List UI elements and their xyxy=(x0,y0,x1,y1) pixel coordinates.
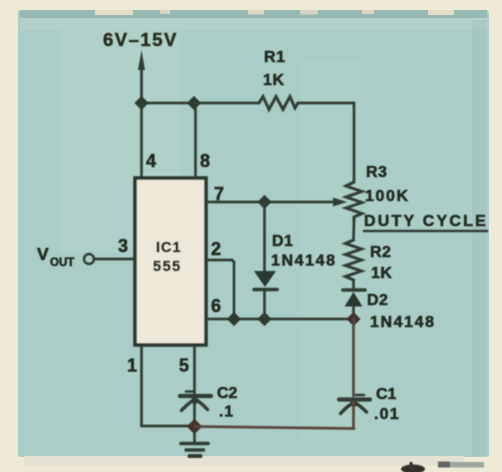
svg-text:R3: R3 xyxy=(366,164,387,181)
node Vout terminal xyxy=(37,244,94,269)
svg-text:3: 3 xyxy=(118,236,128,256)
junction A (supply/pin4) xyxy=(134,96,148,110)
svg-text:C2: C2 xyxy=(217,385,238,402)
svg-text:R1: R1 xyxy=(264,49,286,66)
wire C1 drop xyxy=(352,319,355,396)
wire D2 to junction xyxy=(352,306,355,319)
svg-text:D2: D2 xyxy=(367,292,388,309)
wire pin7 to wiper xyxy=(207,201,336,204)
svg-text:.01: .01 xyxy=(374,406,400,423)
wire pin2 jog xyxy=(207,260,234,319)
scan artifact marks bottom right xyxy=(401,462,484,472)
wire bottom left rail xyxy=(142,425,195,428)
wiper arrow of R3 xyxy=(333,198,347,207)
junction pin2/pin6 xyxy=(227,312,241,326)
resistor R1 xyxy=(259,49,298,110)
wire R1 to corner xyxy=(298,103,354,182)
capacitor C1 xyxy=(339,386,400,429)
svg-text:D1: D1 xyxy=(272,233,293,250)
svg-text:4: 4 xyxy=(146,151,156,171)
svg-text:2: 2 xyxy=(211,239,221,259)
wire bottom rail xyxy=(195,427,355,429)
wire top rail xyxy=(142,102,260,105)
diode D1 xyxy=(254,202,337,319)
svg-text:C1: C1 xyxy=(376,386,397,403)
svg-text:6: 6 xyxy=(211,296,221,316)
svg-text:6V–15V: 6V–15V xyxy=(103,29,178,50)
svg-text:555: 555 xyxy=(153,259,182,275)
svg-text:8: 8 xyxy=(200,151,210,171)
svg-text:1K: 1K xyxy=(263,72,285,89)
op IC1 555 body xyxy=(135,178,206,345)
junction B (pin8) xyxy=(187,96,201,110)
resistor R2 xyxy=(346,240,393,282)
wire R2 to D2 xyxy=(352,280,355,288)
svg-text:V: V xyxy=(37,244,49,264)
wire pin3 xyxy=(94,258,134,261)
svg-text:OUT: OUT xyxy=(50,257,74,269)
junction D2/C1 xyxy=(346,312,360,326)
svg-text:1K: 1K xyxy=(371,265,392,282)
wire pin6 rail xyxy=(207,318,354,321)
capacitor C2 xyxy=(180,385,238,421)
diode D2 xyxy=(343,290,436,331)
power supply 6V-15V xyxy=(103,29,178,103)
junction ground xyxy=(187,419,203,435)
svg-text:IC1: IC1 xyxy=(156,240,182,256)
svg-text:R2: R2 xyxy=(370,244,391,261)
svg-text:100K: 100K xyxy=(365,188,410,205)
node DUTY CYCLE xyxy=(364,213,488,231)
wire pin8 drop xyxy=(194,103,197,177)
ground xyxy=(181,430,208,456)
svg-text:1: 1 xyxy=(127,356,137,376)
wire pin5 drop xyxy=(193,346,196,393)
svg-text:1N4148: 1N4148 xyxy=(271,253,337,270)
svg-text:5: 5 xyxy=(179,356,189,376)
junction D1 bottom xyxy=(257,312,271,326)
potentiometer R3 xyxy=(346,164,410,221)
wire pin4 drop xyxy=(140,103,143,177)
svg-text:1N4148: 1N4148 xyxy=(370,314,436,331)
junction D1 top xyxy=(257,195,271,209)
svg-text:.1: .1 xyxy=(219,404,234,421)
wire pin1 drop xyxy=(140,346,143,426)
wire R3 to R2 xyxy=(352,221,355,240)
svg-text:DUTY CYCLE: DUTY CYCLE xyxy=(364,213,488,230)
